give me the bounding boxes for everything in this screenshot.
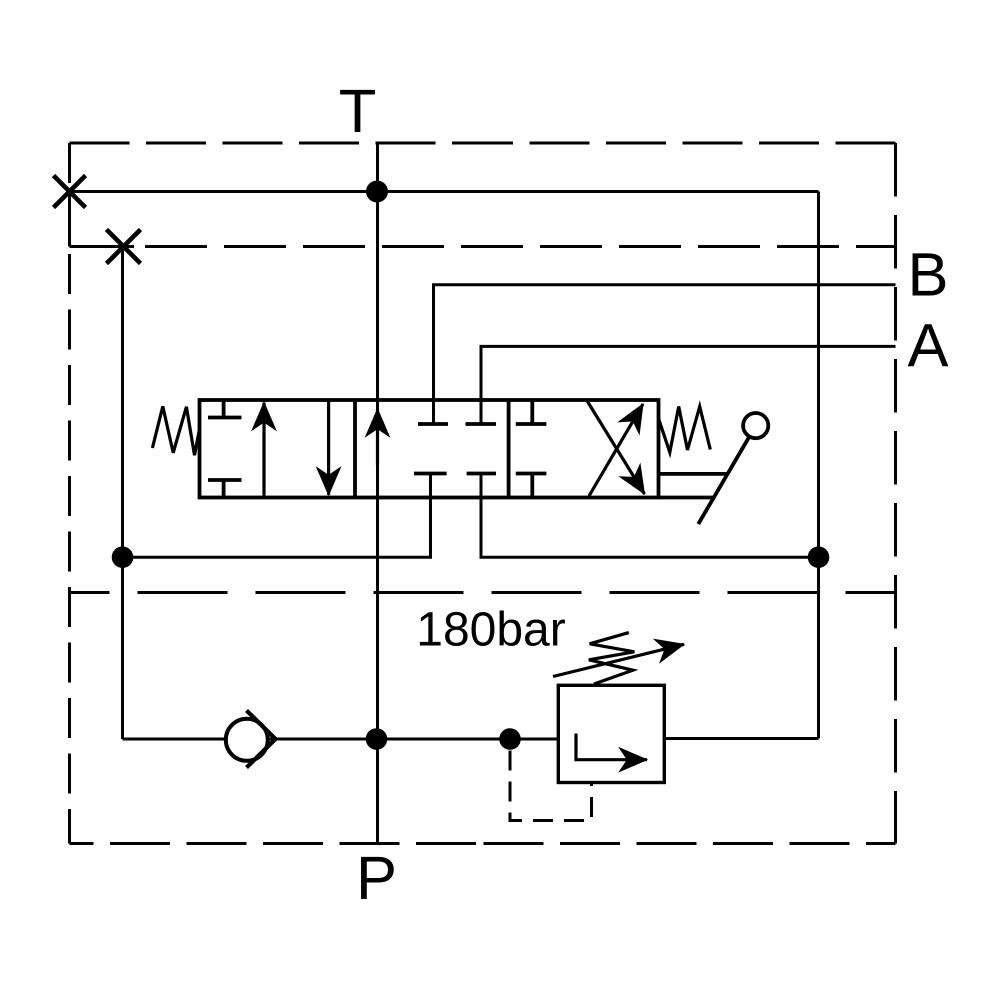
wire valve port A-side down left xyxy=(123,474,431,558)
svg-text:180bar: 180bar xyxy=(416,604,565,657)
box3 closed port top xyxy=(516,400,547,424)
subplate enclosure top dashed border xyxy=(70,142,483,145)
wire right vertical line xyxy=(817,192,820,739)
wire main vertical T-P line xyxy=(376,143,379,844)
wire T line horizontal xyxy=(70,190,819,193)
subplate enclosure left dashed border xyxy=(68,143,71,844)
wire A line xyxy=(481,346,896,424)
box2 closed port bar top left xyxy=(418,422,448,426)
relief valve body xyxy=(558,685,664,782)
relief valve pilot dashed line xyxy=(510,751,592,821)
box1 up arrow xyxy=(262,403,265,498)
relief valve adjustment arrow xyxy=(553,644,684,676)
check valve seat V xyxy=(247,711,276,768)
directional valve divider 2 xyxy=(507,400,511,498)
plugged port X2 xyxy=(107,230,141,264)
check valve circle xyxy=(226,719,268,761)
box3 cross arrow down-right xyxy=(588,402,645,495)
wire B line xyxy=(434,285,896,424)
valve right spring xyxy=(659,407,711,453)
plugged port X1 xyxy=(54,176,86,208)
lever bottom edge extension xyxy=(659,496,714,500)
directional valve body xyxy=(200,400,659,498)
relief valve spring xyxy=(589,633,635,684)
svg-text:T: T xyxy=(339,77,377,146)
box1 closed port top xyxy=(208,400,242,418)
wire relief output to right vertical xyxy=(664,737,818,740)
box1 down arrow xyxy=(327,400,330,495)
subplate enclosure bottom dashed border xyxy=(70,842,483,845)
valve left spring xyxy=(152,406,199,455)
junction node relief pilot xyxy=(499,728,521,750)
subplate enclosure right dashed border xyxy=(894,143,897,844)
svg-text:B: B xyxy=(907,240,948,309)
directional valve divider 1 xyxy=(353,400,357,498)
lever knob circle xyxy=(743,413,768,438)
wire pump line check valve to relief valve xyxy=(268,738,558,741)
junction node left lower xyxy=(112,546,134,568)
lever link bar xyxy=(659,472,728,476)
wire valve port B-side down right xyxy=(481,474,819,558)
svg-text:A: A xyxy=(907,312,948,381)
box3 closed port bottom xyxy=(516,474,547,498)
junction node right lower xyxy=(808,546,830,568)
relief valve internal flow arrow xyxy=(576,734,647,760)
wire left vertical from X2 down xyxy=(121,247,124,740)
wire pump line left to check valve xyxy=(123,738,227,741)
lever handle rod xyxy=(698,437,749,525)
junction node P line xyxy=(366,728,388,750)
box2 P-to-T arrow head xyxy=(376,409,379,465)
inner dashed partition line upper xyxy=(145,245,896,248)
wire plug X1 drop to partition xyxy=(68,192,71,247)
box2 closed port bar bottom right xyxy=(467,472,496,476)
junction node at T line xyxy=(366,181,388,203)
inner dashed partition line lower xyxy=(70,591,896,594)
box2 closed port bar bottom left xyxy=(414,472,447,476)
box1 closed port bottom xyxy=(208,480,242,498)
box2 closed port bar top right xyxy=(466,422,497,426)
box3 cross arrow up-right xyxy=(589,404,643,496)
wire partition stub to plug X2 xyxy=(70,245,135,248)
svg-text:P: P xyxy=(356,844,397,913)
